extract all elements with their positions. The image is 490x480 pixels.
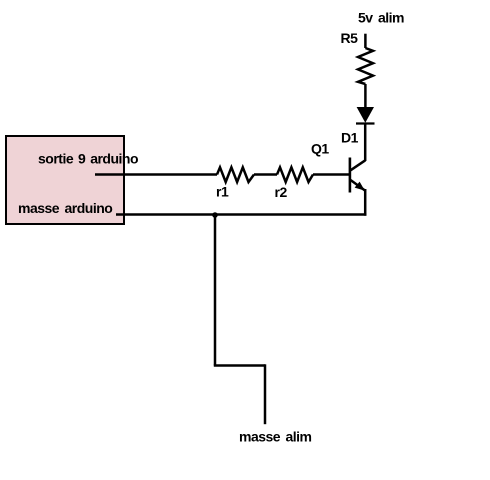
svg-text:D1: D1 <box>341 129 359 145</box>
svg-text:r2: r2 <box>275 184 288 200</box>
svg-text:5v alim: 5v alim <box>358 10 404 26</box>
svg-text:r1: r1 <box>216 183 229 199</box>
svg-text:sortie 9 arduino: sortie 9 arduino <box>38 151 138 167</box>
svg-text:R5: R5 <box>341 30 359 46</box>
svg-text:Q1: Q1 <box>311 140 329 156</box>
svg-text:masse arduino: masse arduino <box>18 200 112 216</box>
svg-text:masse alim: masse alim <box>239 429 312 445</box>
